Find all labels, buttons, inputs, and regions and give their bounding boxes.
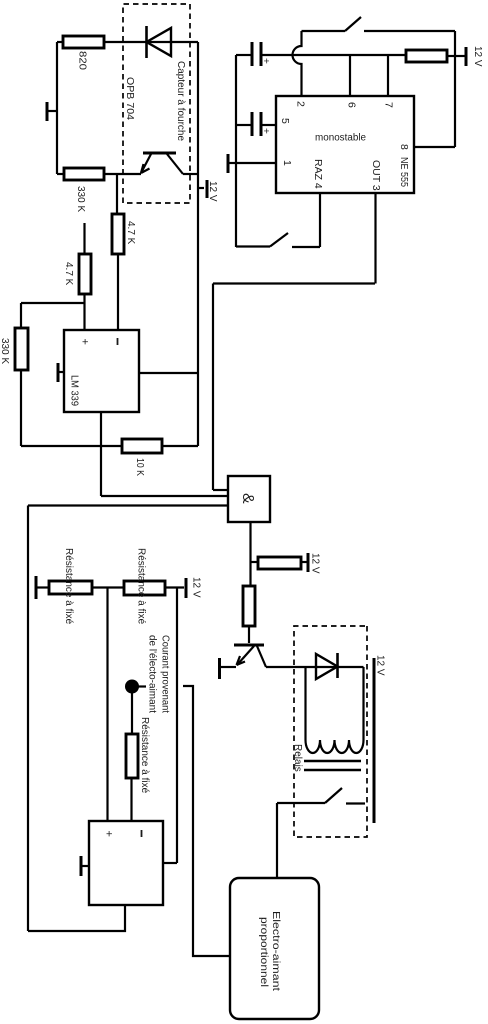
wire pin RAZ4 [319,193,321,247]
wire rail to timing R [447,55,455,57]
svg-text:12 V: 12 V [191,577,202,598]
svg-text:12 V: 12 V [375,655,386,676]
svg-text:4.7 K: 4.7 K [63,262,74,286]
svg-text:OUT 3: OUT 3 [370,160,382,191]
ground tick op-amp2 [81,856,89,876]
svg-text:Courant provenant: Courant provenant [160,635,171,713]
diode D1 LED [147,26,172,58]
12V power symbol divider [186,577,202,598]
dashed box relais [294,626,367,837]
wire AND input 2 [101,495,228,497]
12V power symbol 555 [455,46,483,67]
capacitor C2 [236,112,276,136]
svg-text:Résistance à fixé: Résistance à fixé [139,717,150,794]
wire raz lead A [236,245,270,247]
resistor sense R3 [126,717,150,794]
svg-text:330 K: 330 K [0,338,10,364]
wire loop up to op-amp2 [28,905,125,931]
svg-text:12 V: 12 V [310,553,321,574]
ground tick bottom left [47,102,57,121]
switch raz blade [270,233,288,247]
svg-text:&: & [239,493,256,504]
wire bottom horizontal [56,42,58,174]
svg-text:+: + [103,831,115,837]
12V power bar relay [374,655,386,823]
wire OUT3 net across [212,284,214,491]
svg-text:Electro-aimant: Electro-aimant [270,911,281,991]
svg-text:10 K: 10 K [134,458,145,476]
wire divider top [165,586,184,588]
wire output net [176,588,178,863]
wire 330K to bottom [57,173,64,175]
resistor 820 [63,36,104,70]
wire timing column [261,54,406,56]
wire raz lead B [292,246,320,248]
wire relay to electro-aimant [276,803,278,878]
svg-text:12 V: 12 V [207,181,218,202]
wire base resistor to Q2 [248,626,250,643]
svg-text:OPB 704: OPB 704 [124,77,135,120]
wire coil bottom tap [304,667,306,740]
wire plus branch down [21,302,85,304]
wire LED column top [104,41,198,43]
wire LM339 output up to rail [139,372,198,374]
wire 10K bottom [21,445,122,447]
wire rail corner to 10K [162,445,198,447]
gate U3 AND [228,476,270,522]
wire 330K rail [20,303,22,446]
ground tick Q2 emitter [218,658,221,679]
transistor Q2 [220,645,266,667]
svg-text:proportionnel: proportionnel [258,917,269,987]
wire junction emitter to 4.7K [116,174,118,214]
12V power symbol pull-up [301,553,321,574]
wire coil top tap [362,667,364,740]
wire LM339 output stub right [100,412,102,496]
wire AND input 3 [28,504,228,506]
svg-text:monostable: monostable [315,133,366,144]
wire pull-up branch [251,561,259,563]
svg-text:Relais: Relais [292,744,303,772]
resistor divider R2 [124,548,165,625]
resistor timing 555 [406,50,447,62]
svg-text:12 V: 12 V [472,46,483,67]
wire Q1 emitter column [104,173,141,175]
wire pin 7 [387,55,389,96]
divider column terminal tick [36,576,49,599]
relay core plates [304,761,361,770]
svg-text:de l'électo-aimant: de l'électo-aimant [147,635,158,713]
svg-text:Capteur à fourche: Capteur à fourche [175,61,186,141]
resistor pull-up 12V [258,557,301,569]
resistor base Q2 [243,586,255,626]
wire 4.7K to LM339 plus [83,294,85,330]
svg-text:8: 8 [398,144,410,150]
wire AND output [249,522,251,586]
dashed box OPB704 [123,4,190,203]
wire R820 bottom [57,41,63,43]
switch relay contact [277,788,365,804]
wire op-amp2 output [163,862,177,864]
inductor relay coil [306,740,364,753]
phototransistor Q1 [141,153,183,174]
svg-text:6: 6 [346,102,358,108]
wire pin OUT3 [374,193,376,284]
12V power symbol OPB [198,180,218,202]
svg-text:+: + [79,339,91,345]
wire AND input 1 [213,489,228,491]
svg-text:4.7 K: 4.7 K [125,221,136,245]
wire loop bottom [27,506,29,932]
svg-text:LM 339: LM 339 [69,375,80,406]
wire OUT3 net down [213,282,375,284]
svg-text:7: 7 [383,102,395,108]
svg-text:+: + [260,128,271,134]
svg-text:RAZ 4: RAZ 4 [312,159,324,189]
wire pin 1 [236,162,276,164]
svg-text:1: 1 [281,160,293,166]
wire open stub [83,223,85,254]
wire pin 6 [349,55,351,96]
svg-text:Résistance à fixé: Résistance à fixé [136,548,147,625]
wire divider mid [92,586,124,588]
svg-text:Résistance à fixé: Résistance à fixé [63,548,74,625]
wire Q2 collector up [266,666,364,668]
wire plus input line [106,588,108,821]
svg-text:330 K: 330 K [75,186,86,212]
wire pin 8 [414,146,455,148]
wire 12V top rail [454,31,456,147]
wire 12V rail OPB collector net [197,42,199,446]
box electro-aimant proportionnel [230,878,319,1019]
wire trigger column [302,30,346,32]
resistor 10K [122,439,162,476]
wire trigger to rail [364,30,455,32]
op-amp U1 LM339 [64,330,139,412]
resistor divider R1 [49,548,92,625]
wire dot to R3 [131,693,133,734]
wire electro-aimant sense [183,686,230,956]
wire Q1 collector [183,173,198,175]
resistor 330K first [64,168,104,212]
diode D2 flyback [316,653,338,679]
svg-text:5: 5 [279,118,291,124]
wire minus input line [130,778,132,821]
wire 4.7K to LM339 minus [117,254,119,330]
ground tick 555 [228,154,236,173]
resistor 4.7K first [63,254,91,294]
wire pin 2 with hop [293,31,302,96]
capacitor C1 [236,42,271,66]
op-amp U2 comparator [89,821,163,905]
svg-text:820: 820 [77,51,88,70]
resistor 330K second [0,328,28,370]
svg-text:2: 2 [295,101,307,107]
svg-text:+: + [260,58,271,64]
svg-text:NE 555: NE 555 [398,157,410,187]
switch trigger blade [345,17,361,31]
ground tick LM339 [58,363,64,382]
resistor 4.7K second [112,214,136,254]
wire ground rail 555 [235,55,237,247]
node courant dot [125,680,146,694]
ic U4 NE555 box [276,96,414,193]
